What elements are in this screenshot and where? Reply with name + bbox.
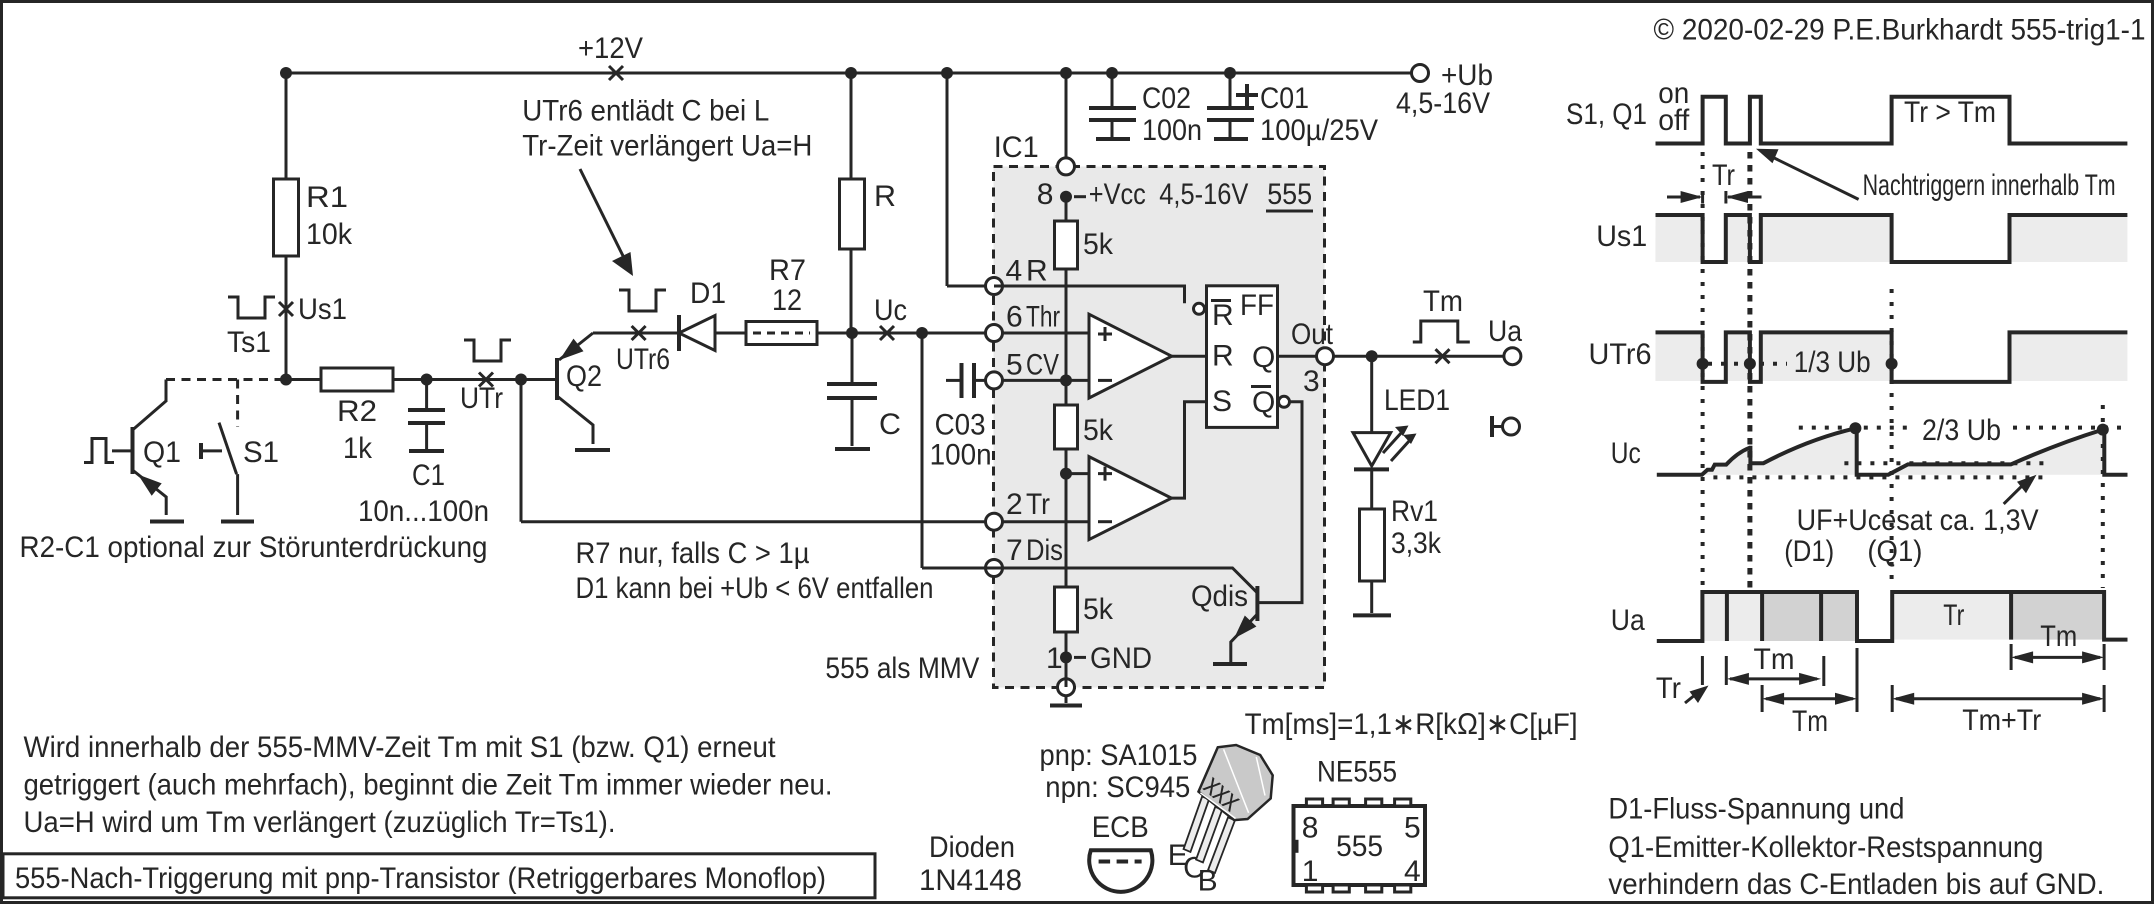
svg-text:3,3k: 3,3k: [1391, 527, 1442, 560]
svg-text:4: 4: [1404, 855, 1421, 888]
svg-text:100n: 100n: [930, 439, 992, 472]
svg-text:R2: R2: [337, 395, 377, 428]
svg-text:1: 1: [1302, 855, 1319, 888]
svg-text:C03: C03: [935, 409, 986, 442]
svg-text:Tr: Tr: [1712, 159, 1735, 192]
svg-text:UTr6: UTr6: [616, 343, 670, 376]
svg-text:D1: D1: [690, 277, 726, 310]
svg-text:Tr > Tm: Tr > Tm: [1904, 96, 1996, 129]
svg-text:Uc: Uc: [874, 294, 907, 327]
svg-text:R2-C1 optional zur Störunterdr: R2-C1 optional zur Störunterdrückung: [20, 531, 488, 564]
svg-text:C01: C01: [1260, 82, 1309, 115]
svg-text:5k: 5k: [1083, 593, 1114, 626]
svg-text:getriggert (auch mehrfach), be: getriggert (auch mehrfach), beginnt die …: [24, 769, 833, 802]
svg-text:R: R: [1212, 340, 1234, 373]
svg-text:Tm: Tm: [1423, 285, 1463, 318]
svg-text:D1 kann bei +Ub < 6V entfallen: D1 kann bei +Ub < 6V entfallen: [576, 572, 934, 605]
svg-text:+12V: +12V: [578, 32, 643, 65]
svg-text:10n...100n: 10n...100n: [358, 495, 489, 528]
svg-text:© 2020-02-29 P.E.Burkhardt 555: © 2020-02-29 P.E.Burkhardt 555-trig1-1: [1654, 14, 2146, 47]
svg-text:Q1: Q1: [143, 436, 181, 469]
svg-text:Tm: Tm: [2040, 620, 2077, 653]
svg-text:FF: FF: [1240, 289, 1274, 322]
svg-text:IC1: IC1: [994, 131, 1039, 164]
svg-text:100µ/25V: 100µ/25V: [1260, 114, 1378, 147]
svg-text:555-Nach-Triggerung mit pnp-Tr: 555-Nach-Triggerung mit pnp-Transistor (…: [15, 862, 826, 895]
svg-text:(Q1): (Q1): [1867, 535, 1922, 568]
svg-text:4,5-16V: 4,5-16V: [1159, 178, 1248, 211]
svg-text:4: 4: [1006, 255, 1023, 288]
svg-text:1k: 1k: [343, 432, 373, 465]
svg-text:verhindern das C-Entladen bis: verhindern das C-Entladen bis auf GND.: [1608, 868, 2104, 901]
svg-text:1: 1: [1046, 642, 1063, 675]
svg-text:5k: 5k: [1083, 414, 1114, 447]
svg-text:Tr: Tr: [1656, 672, 1681, 705]
svg-text:1/3 Ub: 1/3 Ub: [1794, 346, 1871, 379]
svg-text:off: off: [1658, 104, 1690, 137]
svg-text:5: 5: [1404, 812, 1421, 845]
svg-text:555: 555: [1267, 178, 1312, 211]
svg-text:Out: Out: [1291, 318, 1334, 351]
svg-text:100n: 100n: [1142, 114, 1202, 147]
svg-text:Wird innerhalb der 555-MMV-Zei: Wird innerhalb der 555-MMV-Zeit Tm mit S…: [24, 731, 777, 764]
svg-text:Us1: Us1: [298, 293, 347, 326]
svg-text:Ua: Ua: [1488, 315, 1522, 348]
svg-text:pnp: SA1015: pnp: SA1015: [1040, 739, 1198, 772]
svg-text:4,5-16V: 4,5-16V: [1396, 87, 1490, 120]
svg-text:Q1-Emitter-Kollektor-Restspann: Q1-Emitter-Kollektor-Restspannung: [1608, 831, 2043, 864]
svg-text:Us1: Us1: [1596, 220, 1647, 253]
svg-text:Thr: Thr: [1026, 301, 1060, 334]
svg-text:Tr: Tr: [1026, 488, 1050, 521]
svg-text:7: 7: [1006, 534, 1023, 567]
svg-text:8: 8: [1037, 178, 1054, 211]
svg-text:R: R: [1212, 299, 1234, 332]
svg-text:Tm+Tr: Tm+Tr: [1962, 704, 2041, 737]
svg-text:Uc: Uc: [1611, 437, 1641, 470]
svg-text:Tm: Tm: [1754, 643, 1795, 676]
svg-text:2: 2: [1006, 488, 1023, 521]
svg-text:5k: 5k: [1083, 228, 1114, 261]
svg-text:(D1): (D1): [1784, 535, 1834, 568]
svg-text:S: S: [1212, 385, 1232, 418]
svg-text:UTr6 entlädt C bei L: UTr6 entlädt C bei L: [522, 95, 769, 128]
svg-text:Q: Q: [1252, 341, 1275, 374]
svg-text:C1: C1: [412, 459, 445, 492]
svg-text:UTr6: UTr6: [1589, 338, 1652, 371]
svg-text:R1: R1: [306, 181, 348, 214]
svg-text:UTr: UTr: [460, 382, 503, 415]
svg-text:R7 nur, falls C > 1µ: R7 nur, falls C > 1µ: [576, 537, 810, 570]
svg-text:5: 5: [1006, 349, 1023, 382]
svg-text:Ts1: Ts1: [227, 326, 271, 359]
svg-text:Dis: Dis: [1026, 534, 1063, 567]
svg-text:+Vcc: +Vcc: [1089, 178, 1146, 211]
svg-text:D1-Fluss-Spannung und: D1-Fluss-Spannung und: [1608, 793, 1904, 826]
svg-text:2/3 Ub: 2/3 Ub: [1922, 414, 2001, 447]
svg-text:Rv1: Rv1: [1391, 495, 1438, 528]
svg-text:UF+Ucesat ca. 1,3V: UF+Ucesat ca. 1,3V: [1797, 504, 2039, 537]
svg-text:Tr: Tr: [1943, 599, 1964, 632]
svg-text:Ua: Ua: [1611, 604, 1645, 637]
svg-text:R: R: [1026, 255, 1048, 288]
svg-text:CV: CV: [1026, 349, 1059, 382]
svg-text:S1: S1: [243, 436, 279, 469]
svg-text:6: 6: [1006, 301, 1023, 334]
svg-text:C: C: [879, 408, 901, 441]
svg-text:Ua=H wird um Tm verlängert (zu: Ua=H wird um Tm verlängert (zuzüglich Tr…: [24, 806, 616, 839]
svg-text:12: 12: [772, 284, 802, 317]
svg-text:GND: GND: [1090, 642, 1152, 675]
svg-text:Nachtriggern innerhalb Tm: Nachtriggern innerhalb Tm: [1863, 169, 2116, 202]
svg-text:8: 8: [1302, 812, 1319, 845]
svg-text:LED1: LED1: [1384, 384, 1450, 417]
svg-text:10k: 10k: [306, 218, 353, 251]
svg-text:Tm: Tm: [1792, 705, 1828, 738]
svg-text:555 als MMV: 555 als MMV: [825, 652, 979, 685]
svg-text:Tr-Zeit verlängert Ua=H: Tr-Zeit verlängert Ua=H: [522, 130, 812, 163]
svg-text:555: 555: [1336, 830, 1383, 863]
svg-text:Tm[ms]=1,1∗R[kΩ]∗C[µF]: Tm[ms]=1,1∗R[kΩ]∗C[µF]: [1245, 708, 1578, 741]
svg-text:1N4148: 1N4148: [919, 864, 1022, 897]
svg-text:Q2: Q2: [566, 360, 602, 393]
svg-text:3: 3: [1303, 365, 1320, 398]
svg-text:S1, Q1: S1, Q1: [1566, 98, 1647, 131]
svg-text:NE555: NE555: [1317, 756, 1397, 789]
svg-text:R7: R7: [769, 254, 806, 287]
svg-text:R: R: [874, 180, 896, 213]
svg-text:npn: SC945: npn: SC945: [1045, 771, 1190, 804]
svg-text:C02: C02: [1142, 82, 1191, 115]
svg-text:Q: Q: [1252, 386, 1275, 419]
svg-text:ECB: ECB: [1092, 811, 1149, 844]
svg-text:Qdis: Qdis: [1191, 580, 1248, 613]
svg-text:Dioden: Dioden: [929, 831, 1015, 864]
